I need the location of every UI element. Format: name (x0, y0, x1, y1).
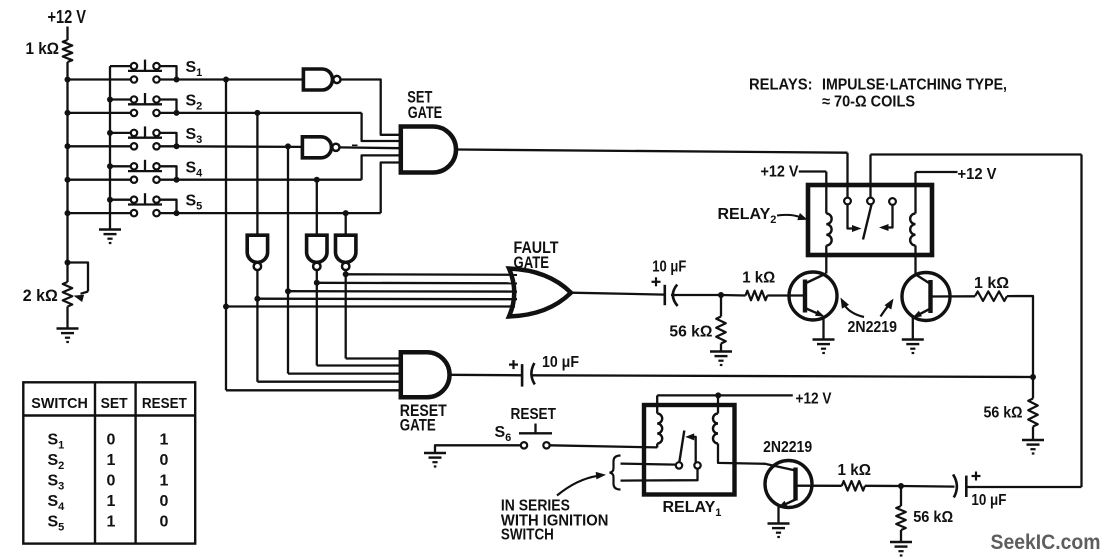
switch S1 bottom-left wire (68, 78, 132, 80)
label 2N2219 Q3 (763, 439, 812, 456)
label 56 kOhm (right) (984, 405, 1023, 422)
label S4 (186, 159, 204, 179)
switch S3 actuator bar (128, 126, 162, 137)
relay2 contact 2 (867, 198, 874, 205)
svg-text:1: 1 (107, 514, 116, 531)
junction S4 output (174, 177, 180, 183)
junction fault node (718, 292, 724, 298)
wire U3 output down (256, 270, 258, 381)
wire reset-in5 stub (226, 389, 401, 391)
svg-text:RESET: RESET (511, 406, 557, 423)
switch S5 actuator bar (128, 193, 162, 204)
relay2 armature (863, 205, 872, 240)
switch S1 top-right link (160, 66, 177, 79)
svg-text:SET: SET (101, 395, 128, 412)
svg-text:IMPULSE·LATCHING TYPE,: IMPULSE·LATCHING TYPE, (822, 76, 1007, 93)
table row S2 (48, 452, 169, 472)
wire relay2 contact2 riser (869, 155, 871, 198)
svg-text:2N2219: 2N2219 (763, 439, 812, 456)
arrow relay2 contact1 (852, 225, 862, 232)
capacitor C1 10 uF (665, 285, 678, 306)
resistor R8 56 kOhm (896, 506, 906, 530)
label +12 V relay2 left (761, 164, 799, 181)
wire R8 to ground (900, 530, 902, 541)
junction bus A S5 (65, 210, 71, 216)
junction bus A S2 (65, 110, 71, 116)
wire R6 to ground (1032, 427, 1034, 440)
or-gate FAULT (509, 269, 571, 317)
wire relay2 contact1 branch (848, 204, 856, 228)
wire +12V feed (66, 27, 68, 41)
label RELAY1 (663, 499, 722, 519)
wire pot wiper loop (68, 263, 89, 292)
wire Q1 emitter (805, 308, 822, 315)
transistor Q2 2N2219 (902, 273, 950, 321)
switch S5 bottom-right wire (160, 212, 177, 214)
switch S5 bottom-left wire (68, 212, 132, 214)
wire Q2 emitter (916, 309, 931, 317)
wire S6 ground link (435, 445, 521, 452)
ground Q3 (768, 524, 790, 539)
junction fault-in4 (254, 296, 260, 302)
junction relay1 coils (715, 392, 721, 398)
relay2 contact 1 (844, 198, 851, 205)
label 1 kOhm (bottom) (838, 462, 872, 479)
wire fault-in1 (346, 273, 517, 276)
label 56 kOhm (fault) (669, 324, 712, 341)
relay2 box (808, 185, 932, 255)
note RELAYS heading (749, 76, 1007, 93)
switch S5 contacts (131, 197, 160, 217)
wire junction to R8 (900, 486, 902, 506)
wire R5 to corner (1007, 296, 1033, 399)
arrow Q3 emitter (778, 501, 788, 508)
svg-text:≈ 70-Ω COILS: ≈ 70-Ω COILS (822, 93, 915, 110)
table row S1 (48, 432, 169, 452)
wire bus A vertical (+12V rail) (66, 62, 68, 282)
wire S4 output (177, 179, 362, 181)
wire fault-in5 (226, 305, 515, 307)
svg-text:1 kΩ: 1 kΩ (742, 270, 775, 287)
wire FAULT output (571, 293, 665, 295)
wire C1 to junction (671, 294, 721, 296)
wire relay2 right coil to Q2 collector (914, 246, 916, 275)
wire relay1 +12V rail (657, 394, 793, 396)
relay2 right coil L2 (910, 214, 915, 246)
capacitor C2 10 uF (522, 363, 535, 387)
label S2 (186, 93, 203, 113)
label 10 uF (fault cap) (652, 258, 686, 275)
artifact tick near set-in3 (352, 144, 358, 146)
svg-text:56 kΩ: 56 kΩ (984, 405, 1023, 422)
wire +12V to relay2 left coil (799, 172, 827, 214)
switch S2 top-left wire (110, 98, 131, 100)
junction reset line (1030, 374, 1036, 380)
resistor R6 56 kOhm (1028, 399, 1038, 427)
junction bus B S5 (107, 197, 113, 203)
wire bottom right to cap C3 (966, 486, 1081, 488)
inverter U5 (down) (336, 235, 356, 270)
wire S2 output (177, 112, 362, 114)
transistor Q1 2N2219 (789, 272, 837, 320)
junction bus A S3 (65, 143, 71, 149)
inverter U3 (down) (247, 235, 267, 270)
label 2N2219 pair (848, 319, 898, 336)
wire right edge vertical (1080, 155, 1082, 488)
wire relay1 contactR down (621, 469, 698, 481)
switch S5 top-left wire (110, 199, 131, 201)
resistor R3 1 kOhm (746, 291, 768, 301)
and-gate SET (401, 127, 456, 173)
svg-text:0: 0 (107, 432, 116, 449)
svg-text:56 kΩ: 56 kΩ (669, 324, 712, 341)
wire reset-in3 stub (288, 372, 401, 374)
svg-text:SWITCH: SWITCH (501, 527, 554, 544)
svg-text:SeekIC.com: SeekIC.com (991, 531, 1101, 554)
wire to R3 (721, 294, 746, 297)
table switch/set/reset frame (23, 382, 195, 543)
junction S5 output (174, 210, 180, 216)
junction S2 output (174, 110, 180, 116)
wire S1 vertical branch (225, 80, 227, 391)
wire S6 to relay1 coil (550, 445, 658, 447)
note coils (822, 93, 915, 110)
svg-text:1 kΩ: 1 kΩ (26, 39, 60, 58)
relay2 left coil L1 (826, 214, 831, 246)
label S1 (186, 59, 203, 79)
wire fault-in3 (288, 290, 517, 293)
junction fault-in3 (285, 288, 291, 294)
junction S2 branch (254, 110, 260, 116)
switch S4 top-left wire (110, 165, 131, 167)
wire relay2 left coil to Q1 collector (825, 246, 827, 274)
junction fault-in5 (223, 304, 229, 310)
arrow pot wiper (74, 295, 85, 302)
potentiometer R2 2 kOhm (63, 282, 73, 307)
junction fault-in1 (343, 271, 349, 277)
table header (31, 395, 187, 412)
label S6 (495, 424, 512, 444)
wire S5 jog up to set-in5 (381, 163, 401, 214)
switch S6 actuator (519, 424, 552, 434)
ground R4 (710, 352, 732, 367)
wire junction to C3 (901, 485, 955, 488)
wire S4 jog up to set-in4 (362, 155, 401, 179)
wire Q2 collector (915, 274, 931, 284)
wire junction to R4 (720, 295, 722, 317)
junction S4 branch (314, 177, 320, 183)
label 2 kOhm (23, 286, 58, 305)
label S5 (186, 193, 203, 213)
switch S3 bottom-left wire (68, 145, 132, 147)
inverter U4 (down) (307, 235, 327, 270)
wire Q2 emitter to ground (912, 317, 914, 339)
wire relay1 left coil riser (656, 395, 658, 413)
brace ignition (610, 456, 621, 490)
wire relay1 left coil bottom (656, 444, 658, 448)
wire pot wiper arm (81, 292, 89, 294)
svg-text:+12 V: +12 V (796, 391, 832, 408)
svg-text:SWITCH: SWITCH (31, 395, 88, 412)
switch S4 actuator bar (128, 160, 162, 171)
svg-text:10 μF: 10 μF (971, 492, 1006, 509)
svg-text:1 kΩ: 1 kΩ (974, 275, 1009, 292)
svg-text:+12 V: +12 V (761, 164, 799, 181)
arrow 2N2219 to Q2 (881, 299, 894, 317)
wire relay1 right coil riser (717, 395, 719, 413)
ground Q2 (902, 340, 924, 355)
wire S1 output to NAND1 (177, 78, 304, 80)
wire NAND2 output to set-in3 (340, 146, 401, 149)
and-gate RESET (401, 352, 450, 397)
arrow relay1 armature (685, 433, 694, 440)
wire SET output to relay2 (457, 150, 848, 153)
wire Q1 collector (805, 274, 826, 284)
node +12 V supply label (48, 7, 87, 27)
wire Q3 emitter (781, 500, 796, 507)
label FAULT GATE (514, 239, 559, 272)
arrow Q1 emitter (815, 310, 825, 317)
resistor R1 1 kOhm (63, 40, 73, 62)
wire Q2 base (931, 295, 976, 298)
wire S3 vertical branch (287, 146, 289, 373)
relay1 armature (679, 431, 684, 463)
arrow 2N2219 to Q1 (841, 298, 865, 318)
switch S3 top-right link (160, 133, 177, 146)
svg-text:GATE: GATE (400, 417, 436, 435)
switch S1 actuator bar (128, 60, 162, 71)
ground Q1 (813, 340, 835, 355)
wire pot to ground (66, 307, 68, 328)
ground pot (57, 329, 79, 344)
svg-text:2N2219: 2N2219 (848, 319, 898, 336)
relay1 box (644, 405, 735, 495)
switch S2 actuator bar (128, 93, 162, 104)
switch S6 contacts (521, 442, 550, 448)
ground R8 (890, 542, 912, 557)
junction bus B S4 (107, 163, 113, 169)
wire Q1 emitter to ground (822, 316, 824, 339)
label +12 V relay2 right (958, 166, 997, 183)
ground bus B (99, 230, 121, 245)
junction bus A pot tap (65, 260, 71, 266)
label 10 uF (bottom cap) (971, 492, 1006, 509)
svg-text:+12 V: +12 V (958, 166, 997, 183)
plus sign fault cap (652, 277, 661, 286)
note in series with ignition switch (501, 498, 609, 544)
wire Q3 collector slant (766, 464, 796, 471)
switch S3 contacts (131, 130, 160, 150)
relay1 contact L (676, 462, 682, 468)
arrow Q2 emitter (913, 311, 923, 318)
table row S4 (48, 493, 169, 513)
switch S4 contacts (131, 163, 160, 183)
wire C2 to junction (reset line) (531, 375, 1034, 377)
junction bottom node (898, 483, 904, 489)
label 1 kOhm (fault) (742, 270, 775, 287)
svg-text:10 μF: 10 μF (542, 354, 579, 371)
label RESET switch (511, 406, 557, 423)
plus sign C3 (972, 472, 981, 481)
table row S5 (48, 514, 169, 534)
switch S5 top-right link (160, 200, 177, 213)
wire U5 output down (345, 270, 347, 358)
svg-text:0: 0 (160, 514, 169, 531)
label SET GATE (407, 89, 442, 122)
label +12 V relay1 (796, 391, 832, 408)
switch S4 bottom-left wire (68, 179, 132, 181)
svg-text:RELAYS:: RELAYS: (749, 76, 813, 93)
arrow to brace (557, 472, 606, 496)
table row S3 (48, 473, 169, 493)
relay1 contact R (694, 462, 700, 468)
junction fault-in2 (314, 280, 320, 286)
wire relay1 right coil to Q3 (718, 444, 766, 464)
wire NAND1 output to set-in1 (341, 80, 401, 135)
switch S1 contacts (131, 63, 160, 83)
wire relay2 contact1 riser (846, 153, 848, 198)
junction bus A S4 (65, 177, 71, 183)
wire R7 to junction (865, 485, 901, 488)
label S3 (186, 126, 203, 146)
svg-text:0: 0 (160, 452, 169, 469)
svg-text:1: 1 (160, 432, 169, 449)
switch S2 top-right link (160, 100, 177, 113)
arrow RELAY2 pointer (777, 213, 808, 220)
wire fault-in2 (317, 282, 517, 285)
watermark SeekIC.com (991, 531, 1101, 554)
wire relay2 to right edge (871, 153, 1082, 155)
switch S2 bottom-right wire (160, 112, 177, 114)
wire S2 branch to inverter U3 (256, 113, 258, 235)
label 56 kOhm (bottom) (913, 509, 953, 526)
wire +12V to relay2 right coil (916, 172, 958, 214)
junction S3 branch (285, 143, 291, 149)
wire U4 output down (316, 270, 318, 365)
switch S2 contacts (131, 96, 160, 116)
switch S3 top-left wire (110, 132, 131, 134)
inverter U2 (S3 NAND) (302, 137, 339, 158)
wire reset-in1 stub (346, 357, 401, 359)
ground S6 (424, 453, 446, 468)
wire Q3 emitter to ground (777, 507, 779, 523)
relay2 contact 3 (889, 198, 896, 205)
svg-text:GATE: GATE (408, 104, 443, 122)
switch S1 bottom-right wire (160, 78, 177, 80)
plus sign reset cap (509, 360, 518, 369)
wire R3 to Q1 base (767, 294, 803, 296)
svg-text:1: 1 (107, 493, 116, 510)
svg-text:2 kΩ: 2 kΩ (23, 286, 58, 305)
switch S3 bottom-right wire (160, 145, 177, 147)
wire R4 to ground (720, 344, 722, 351)
junction S1 output (174, 77, 180, 83)
svg-text:RESET: RESET (142, 395, 187, 412)
wire relay1 contactR link (691, 437, 696, 463)
switch S4 top-right link (160, 166, 177, 179)
svg-text:10 μF: 10 μF (652, 258, 686, 275)
wire S3 output to NAND2 (177, 145, 303, 148)
wire RESET output (450, 374, 523, 377)
wire reset-in2 stub (317, 364, 401, 366)
inverter U1 (S1 NAND) (303, 69, 340, 90)
wire S2 jog down to set-in2 (362, 113, 401, 141)
wire S5 branch to inverter U5 (345, 213, 347, 235)
wire S5 output (177, 212, 381, 214)
transistor Q3 2N2219 (765, 461, 812, 508)
svg-text:56 kΩ: 56 kΩ (913, 509, 953, 526)
label RESET GATE (400, 402, 447, 435)
junction S5 branch (343, 210, 349, 216)
label RELAY2 (718, 206, 777, 226)
resistor R7 1 kOhm (842, 481, 865, 491)
ground R6 (1022, 440, 1044, 455)
switch S4 bottom-right wire (160, 179, 177, 181)
wire bus B vertical (switch common) (109, 66, 111, 228)
resistor R5 1 kOhm (975, 291, 1007, 301)
relay1 left coil L3 (657, 414, 662, 444)
capacitor C3 10 uF (953, 474, 966, 497)
arrow relay2 contact3 (879, 224, 889, 231)
svg-text:1: 1 (160, 473, 169, 490)
relay1 right coil L4 (713, 414, 718, 444)
svg-text:1: 1 (107, 452, 116, 469)
switch S1 top-left wire (110, 65, 131, 67)
junction bus B S3 (107, 130, 113, 136)
svg-text:0: 0 (107, 473, 116, 490)
wire relay2 contact3 branch (885, 205, 893, 228)
junction S3 output (174, 143, 180, 149)
label 10 uF (reset cap) (542, 354, 579, 371)
label 1 kOhm (right) (974, 275, 1009, 292)
switch S2 bottom-left wire (68, 112, 132, 114)
junction bus B S2 (107, 97, 113, 103)
resistor R4 56 kOhm (716, 317, 726, 344)
wire ignition line top (621, 464, 676, 465)
wire Q3 base (796, 485, 842, 487)
wire reset-in4 stub (257, 381, 400, 383)
wire S4 branch to inverter U4 (316, 180, 318, 236)
svg-text:0: 0 (160, 493, 169, 510)
junction bus A S1 (65, 77, 71, 83)
svg-text:1 kΩ: 1 kΩ (838, 462, 872, 479)
wire fault-in4 (257, 298, 517, 301)
label 1 kOhm (26, 39, 60, 58)
junction S1 branch (223, 77, 229, 83)
svg-text:+12 V: +12 V (48, 7, 87, 27)
